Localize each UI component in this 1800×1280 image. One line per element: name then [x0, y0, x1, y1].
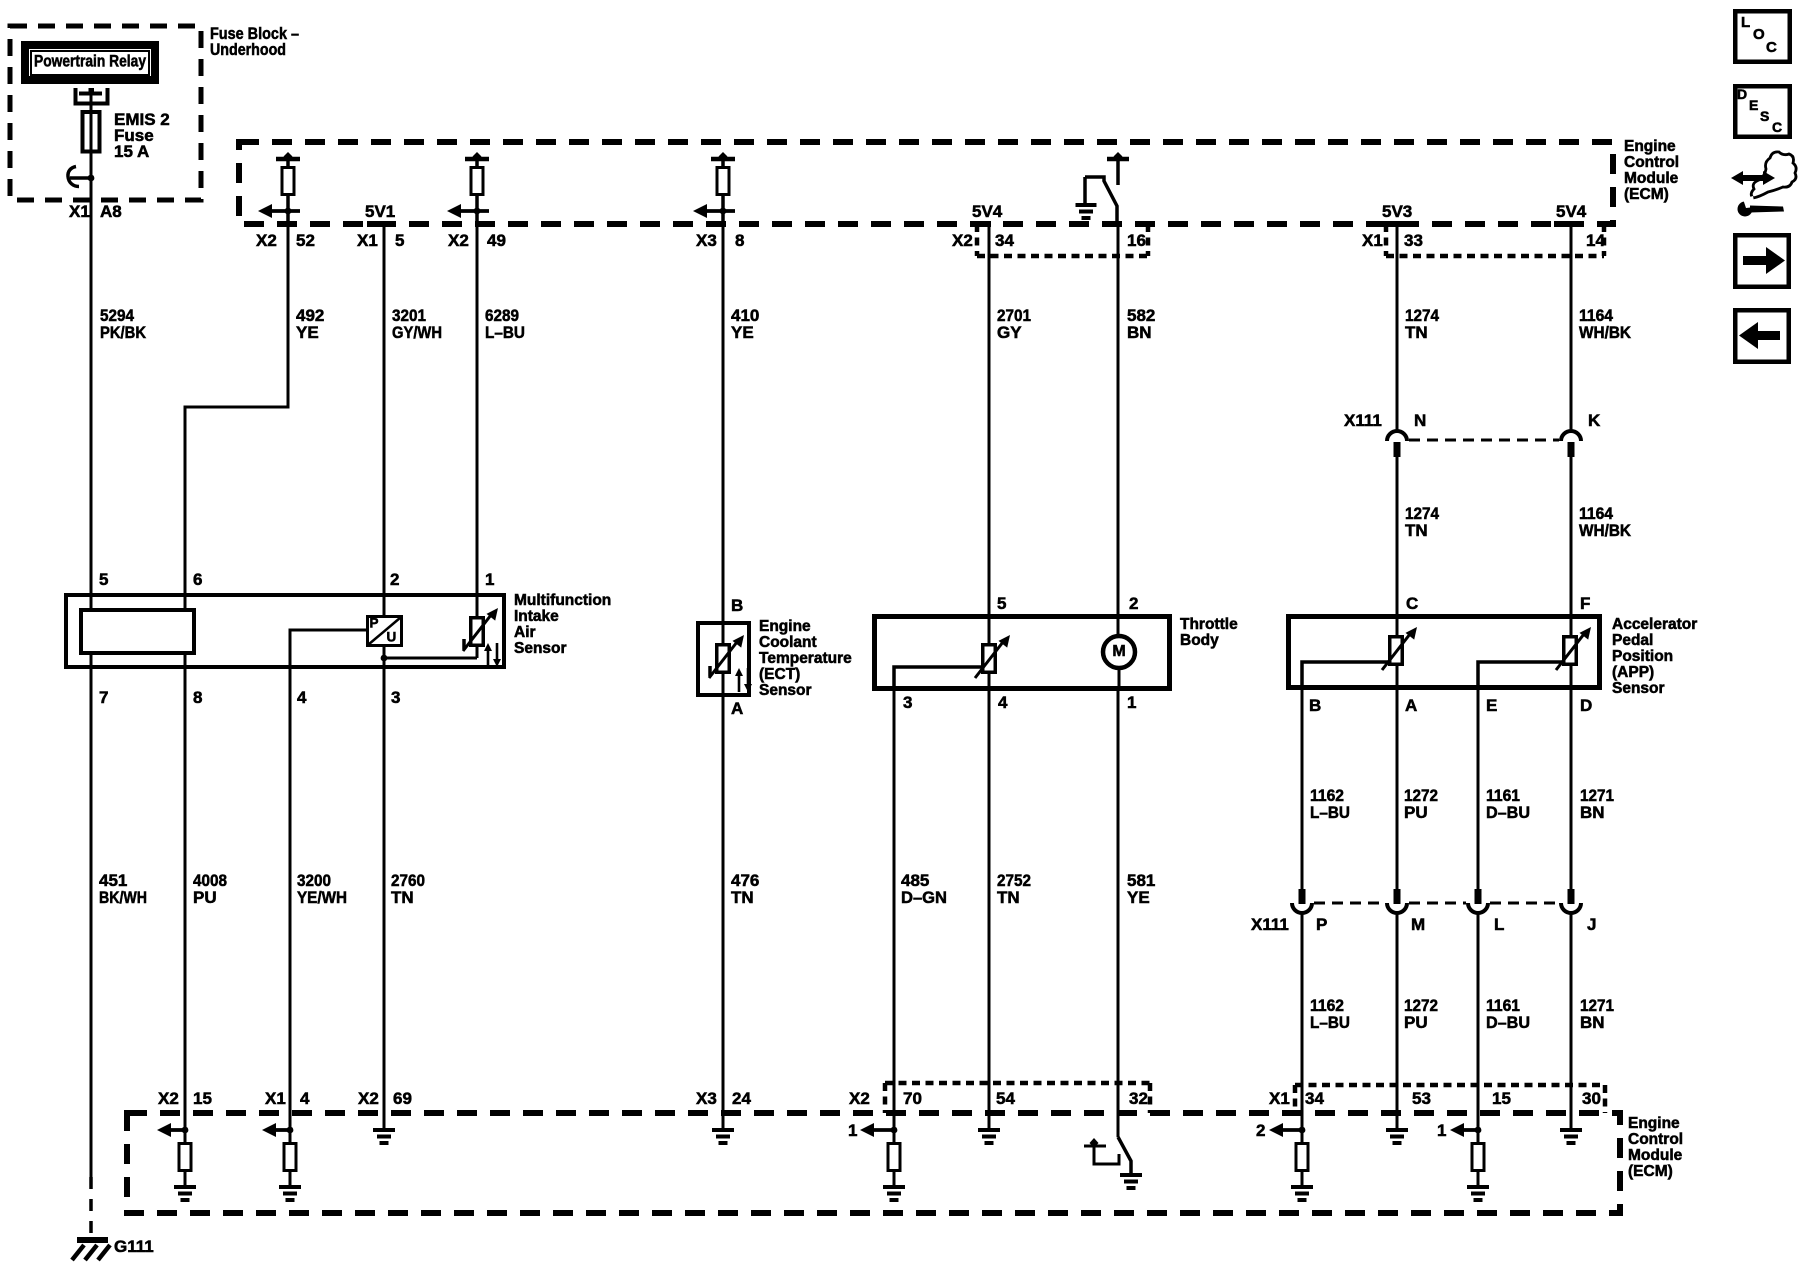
ECM internal pull-up, pin 8: [711, 157, 735, 162]
wire 1164 WH/BK lower segment to APP F: [1570, 457, 1573, 638]
connector X111 lower, terminal J: [1568, 889, 1575, 904]
fuse block underhood dashed box: [10, 26, 201, 200]
wire 582 BN (ECM 16 to throttle pin 2): [1117, 226, 1120, 638]
svg-text:Module: Module: [1628, 1147, 1683, 1164]
wire 1274 TN lower segment to APP C: [1396, 457, 1399, 638]
svg-text:1: 1: [848, 1121, 857, 1140]
MAF heater element rectangle: [81, 610, 194, 653]
svg-text:5V1: 5V1: [365, 202, 395, 221]
icon box LOC: [1735, 11, 1790, 62]
svg-text:69: 69: [393, 1089, 412, 1108]
svg-text:(APP): (APP): [1612, 664, 1654, 681]
Throttle Body box: [875, 617, 1170, 689]
ECM pin 54 ground: [978, 1128, 1000, 1132]
MAF up/down arrows: [487, 650, 490, 667]
icon box left arrow: [1735, 310, 1789, 362]
svg-text:32: 32: [1129, 1089, 1148, 1108]
svg-text:54: 54: [996, 1089, 1015, 1108]
svg-text:2: 2: [390, 570, 399, 589]
svg-text:X1: X1: [357, 231, 378, 250]
svg-text:Multifunction: Multifunction: [514, 592, 611, 609]
wire 451 BK/WH (MAF 7 down): [90, 653, 93, 1177]
ECM connector dotted box pins 33,14: [1384, 224, 1389, 256]
ECM pin 30 ground: [1560, 1128, 1582, 1132]
svg-text:X2: X2: [256, 231, 277, 250]
svg-text:TN: TN: [997, 888, 1020, 907]
Engine Control Module (ECM) top dashed box: [239, 142, 1613, 224]
svg-text:1: 1: [1127, 693, 1136, 712]
svg-text:X1: X1: [265, 1089, 286, 1108]
svg-text:(ECT): (ECT): [759, 666, 800, 683]
svg-text:S: S: [1760, 108, 1769, 124]
connector X111 upper, terminal N: [1387, 431, 1407, 441]
wire 410 YE (ECM X3-8 to ECT pin B): [722, 224, 725, 644]
svg-text:GY: GY: [997, 323, 1022, 342]
svg-text:8: 8: [735, 231, 744, 250]
wire 5294 PK/BK (fuse to MAF pin 5): [90, 178, 93, 610]
svg-text:X111: X111: [1251, 915, 1289, 934]
Engine Coolant Temperature (ECT) Sensor box: [698, 623, 749, 695]
svg-text:M: M: [1411, 915, 1425, 934]
MAF variable sensing element: [471, 618, 484, 646]
MAF junction line pin 3 column: [383, 647, 386, 669]
svg-text:TN: TN: [391, 888, 414, 907]
svg-text:34: 34: [995, 231, 1014, 250]
svg-text:X1: X1: [1362, 231, 1383, 250]
chassis ground G111: [77, 1237, 108, 1243]
svg-text:TN: TN: [1405, 323, 1428, 342]
ECM low-side driver switch pin 32: [1118, 1137, 1131, 1174]
svg-text:24: 24: [732, 1089, 751, 1108]
svg-text:30: 30: [1582, 1089, 1601, 1108]
ECM input pin 15: arrow, resistor, ground: [169, 1128, 185, 1132]
svg-text:Module: Module: [1624, 170, 1679, 187]
svg-text:7: 7: [99, 688, 108, 707]
svg-text:5V4: 5V4: [1556, 202, 1587, 221]
svg-text:Sensor: Sensor: [514, 640, 567, 657]
ECM low-side driver switch, pin 16: [1107, 157, 1129, 162]
svg-text:Engine: Engine: [1624, 138, 1676, 155]
svg-text:L–BU: L–BU: [1310, 1013, 1350, 1032]
svg-text:X2: X2: [849, 1089, 870, 1108]
svg-text:WH/BK: WH/BK: [1579, 521, 1632, 540]
ECM connector dotted box pins 34,16: [975, 224, 980, 256]
svg-text:TN: TN: [731, 888, 754, 907]
connector X111 lower, terminal L: [1475, 889, 1482, 904]
svg-text:TN: TN: [1405, 521, 1428, 540]
svg-text:BN: BN: [1580, 803, 1605, 822]
wire 3200 YE/WH (MAF 4 to ECM X1-4): [289, 667, 292, 1142]
ECM internal pull-up, pin 52: [276, 157, 300, 162]
svg-text:34: 34: [1305, 1089, 1324, 1108]
svg-text:E: E: [1486, 696, 1497, 715]
TB throttle position sensor potentiometer: [983, 645, 996, 673]
svg-text:Underhood: Underhood: [210, 40, 286, 59]
svg-text:1: 1: [1437, 1121, 1446, 1140]
ECM connector dotted box pins 70,54,32: [883, 1083, 888, 1113]
X111 lower dashed links: [1314, 902, 1385, 905]
Engine Control Module (ECM) bottom dashed box: [127, 1113, 1620, 1213]
wire 485 D-GN (TB 3 to ECM 70): [893, 689, 896, 1142]
svg-text:PU: PU: [1404, 803, 1428, 822]
svg-text:16: 16: [1127, 231, 1146, 250]
svg-text:X3: X3: [696, 1089, 717, 1108]
svg-text:Coolant: Coolant: [759, 634, 817, 651]
wire 492 YE (ECM 52 to MAF pin 6): [185, 224, 288, 610]
svg-text:Throttle: Throttle: [1180, 616, 1238, 633]
svg-text:P: P: [1316, 915, 1327, 934]
svg-text:F: F: [1580, 594, 1590, 613]
ground symbol inside ECM (pin 16 driver): [1076, 203, 1097, 207]
wire 1271 BN (APP D to X111 J): [1570, 688, 1573, 889]
TB motor M: [1103, 636, 1135, 668]
svg-text:4: 4: [297, 688, 307, 707]
svg-text:15: 15: [1492, 1089, 1511, 1108]
MAF wire P/U to pin 4 (corner): [290, 630, 366, 669]
svg-text:E: E: [1749, 97, 1758, 113]
svg-text:G111: G111: [114, 1237, 154, 1256]
svg-text:PU: PU: [1404, 1013, 1428, 1032]
ECT thermistor: [717, 645, 730, 673]
svg-text:P: P: [370, 616, 379, 631]
svg-text:A: A: [1405, 696, 1417, 715]
svg-text:U: U: [387, 630, 397, 645]
svg-text:X2: X2: [158, 1089, 179, 1108]
svg-text:Pedal: Pedal: [1612, 632, 1653, 649]
lower wire labels second set: [1301, 913, 1304, 1142]
svg-text:Body: Body: [1180, 632, 1219, 649]
MAF P/U converter box: [368, 617, 402, 646]
APP potentiometer 1: [1390, 637, 1403, 665]
svg-text:C: C: [1406, 594, 1418, 613]
svg-text:5V4: 5V4: [972, 202, 1003, 221]
wire 1162 L-BU (APP B to X111 P): [1301, 688, 1304, 889]
svg-text:Air: Air: [514, 624, 536, 641]
pin 32 driver control arm: [1084, 1145, 1106, 1148]
svg-text:(ECM): (ECM): [1624, 186, 1669, 203]
svg-text:YE: YE: [296, 323, 319, 342]
svg-text:Powertrain Relay: Powertrain Relay: [34, 52, 146, 71]
svg-text:5: 5: [395, 231, 404, 250]
svg-text:YE: YE: [1127, 888, 1150, 907]
APP pot2 wiper to pin E: [1478, 662, 1563, 690]
connector X111 lower, terminal P: [1299, 889, 1306, 904]
fuse EMIS 2 15 A: [83, 112, 100, 152]
wire 3201 GY/WH (ECM X1-5 to MAF pin 2): [383, 224, 386, 617]
X111 upper dashed link: [1409, 439, 1559, 442]
ECM pin 24 ground: [712, 1128, 734, 1132]
wire 581 YE (TB 1 to ECM 32): [1117, 689, 1120, 1137]
svg-text:2: 2: [1256, 1121, 1265, 1140]
svg-text:PU: PU: [193, 888, 217, 907]
Accelerator Pedal Position (APP) Sensor box: [1289, 617, 1600, 688]
svg-text:X2: X2: [358, 1089, 379, 1108]
svg-text:Sensor: Sensor: [1612, 680, 1665, 697]
wire 2760 TN (MAF 3 to ECM 69): [383, 667, 386, 1128]
icon box right arrow: [1735, 235, 1789, 287]
ECM pin 69 ground: [373, 1128, 395, 1132]
svg-text:5: 5: [99, 570, 108, 589]
svg-text:1: 1: [485, 570, 494, 589]
Multifunction Intake Air Sensor box: [66, 595, 504, 667]
svg-text:X3: X3: [696, 231, 717, 250]
svg-text:Position: Position: [1612, 648, 1673, 665]
svg-text:14: 14: [1586, 231, 1605, 250]
svg-text:BN: BN: [1127, 323, 1152, 342]
svg-text:K: K: [1588, 411, 1601, 430]
svg-text:N: N: [1414, 411, 1426, 430]
connector X111 lower, terminal M: [1394, 889, 1401, 904]
svg-text:15: 15: [193, 1089, 212, 1108]
svg-text:Sensor: Sensor: [759, 682, 812, 699]
svg-text:5V3: 5V3: [1382, 202, 1412, 221]
APP pot1 wiper to pin B: [1302, 662, 1389, 690]
svg-text:GY/WH: GY/WH: [392, 323, 442, 342]
svg-text:6: 6: [193, 570, 202, 589]
svg-text:X2: X2: [952, 231, 973, 250]
svg-text:BK/WH: BK/WH: [99, 888, 147, 907]
svg-text:3: 3: [903, 693, 912, 712]
svg-text:D–BU: D–BU: [1486, 803, 1530, 822]
svg-text:L–BU: L–BU: [485, 323, 525, 342]
svg-text:Control: Control: [1624, 154, 1679, 171]
svg-text:53: 53: [1412, 1089, 1431, 1108]
svg-text:70: 70: [903, 1089, 922, 1108]
svg-text:A8: A8: [100, 202, 122, 221]
svg-text:D–GN: D–GN: [901, 888, 947, 907]
svg-text:B: B: [1309, 696, 1321, 715]
svg-text:M: M: [1112, 643, 1125, 660]
svg-text:X1: X1: [1269, 1089, 1290, 1108]
wire 2752 TN (TB 4 to ECM 54): [988, 689, 991, 1128]
svg-text:49: 49: [487, 231, 506, 250]
nav icon: double arrow, outline, wrench: [1751, 152, 1796, 198]
wire 1161 D-BU (APP E to X111 L): [1477, 688, 1480, 889]
svg-text:33: 33: [1404, 231, 1423, 250]
svg-text:X1: X1: [69, 202, 90, 221]
ECT up/down arrows: [738, 675, 741, 692]
wire 4008 PU (MAF 8 to ECM 15): [184, 653, 187, 1142]
relay: Powertrain Relay box: [25, 45, 155, 80]
svg-text:O: O: [1753, 26, 1765, 43]
svg-text:8: 8: [193, 688, 202, 707]
connector X111 upper, terminal K: [1561, 431, 1581, 441]
svg-text:L–BU: L–BU: [1310, 803, 1350, 822]
svg-text:D–BU: D–BU: [1486, 1013, 1530, 1032]
svg-text:Engine: Engine: [759, 618, 811, 635]
svg-text:L: L: [1741, 14, 1750, 31]
icon box DESC: [1735, 86, 1790, 137]
svg-text:5: 5: [997, 594, 1006, 613]
APP potentiometer 2: [1564, 637, 1577, 665]
svg-text:D: D: [1737, 86, 1747, 102]
svg-text:52: 52: [296, 231, 315, 250]
svg-text:4: 4: [300, 1089, 310, 1108]
wire 451 dashed portion to G111: [89, 1177, 93, 1237]
wire 1272 PU (APP A to X111 M): [1396, 688, 1399, 889]
wire 1164 WH/BK upper (ECM 14 to X111 K): [1570, 224, 1573, 432]
svg-text:L: L: [1494, 915, 1504, 934]
svg-text:(ECM): (ECM): [1628, 1163, 1673, 1180]
relay terminal (socket + pin): [76, 88, 108, 104]
svg-text:B: B: [731, 596, 743, 615]
svg-text:Engine: Engine: [1628, 1115, 1680, 1132]
svg-text:J: J: [1587, 915, 1596, 934]
ECM internal pull-up, pin 49: [465, 157, 489, 162]
svg-text:Accelerator: Accelerator: [1612, 616, 1697, 633]
svg-text:PK/BK: PK/BK: [100, 323, 147, 342]
svg-text:A: A: [731, 699, 743, 718]
connector terminal below fuse: [68, 167, 79, 187]
wire 1274 TN upper (ECM 33 to X111 N): [1396, 224, 1399, 432]
svg-text:X2: X2: [448, 231, 469, 250]
svg-text:C: C: [1766, 39, 1777, 56]
TB wiper wire to pin 3: [894, 667, 984, 691]
ECM input pin 4: arrow, resistor, ground: [274, 1128, 290, 1132]
wire 476 TN (ECT A to ECM X3-24): [722, 695, 725, 1128]
svg-text:BN: BN: [1580, 1013, 1605, 1032]
wire 2701 GY (ECM 34 to throttle pin 5): [988, 224, 991, 645]
svg-text:C: C: [1772, 119, 1782, 135]
svg-text:15 A: 15 A: [114, 142, 149, 161]
svg-text:4: 4: [998, 693, 1008, 712]
svg-text:WH/BK: WH/BK: [1579, 323, 1632, 342]
svg-text:2: 2: [1129, 594, 1138, 613]
svg-text:Control: Control: [1628, 1131, 1683, 1148]
svg-text:Temperature: Temperature: [759, 650, 852, 667]
svg-text:YE/WH: YE/WH: [297, 888, 347, 907]
svg-text:D: D: [1580, 696, 1592, 715]
svg-text:3: 3: [391, 688, 400, 707]
wire 6289 L-BU (ECM 49 to MAF pin 1): [476, 224, 479, 618]
svg-text:X111: X111: [1344, 411, 1382, 430]
svg-text:YE: YE: [731, 323, 754, 342]
ECM connector dotted box pins 34,53,15,30: [1293, 1085, 1298, 1113]
pin 32 ground: [1120, 1173, 1142, 1177]
corner dashes at net pins: [367, 221, 386, 227]
ECM pin 53 ground: [1386, 1128, 1408, 1132]
svg-text:Intake: Intake: [514, 608, 559, 625]
